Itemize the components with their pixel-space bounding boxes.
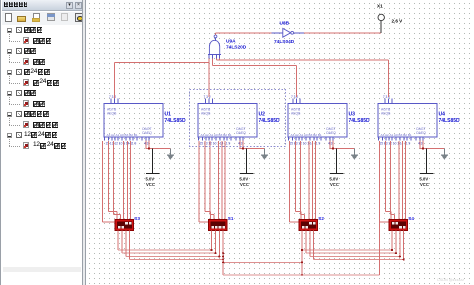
svg-text:S3: S3 bbox=[134, 216, 140, 221]
svg-text:CSDN @zzzzzz: CSDN @zzzzzz bbox=[437, 278, 464, 282]
svg-text:74LS85D: 74LS85D bbox=[259, 118, 281, 124]
svg-text:74LS20D: 74LS20D bbox=[226, 45, 247, 51]
svg-text:A3 A2 A1 A0 B3 B2 B1: A3 A2 A1 A0 B3 B2 B1 bbox=[201, 133, 232, 137]
svg-text:AEQB: AEQB bbox=[381, 112, 391, 116]
svg-text:S4: S4 bbox=[408, 216, 414, 221]
svg-text:74LS85D: 74LS85D bbox=[349, 118, 371, 124]
svg-text:VCC: VCC bbox=[420, 182, 429, 187]
svg-text:A3 A2 A1 A0 B3 B2 B1: A3 A2 A1 A0 B3 B2 B1 bbox=[107, 133, 138, 137]
svg-text:U3: U3 bbox=[349, 111, 356, 117]
svg-text:A3 A2 A1 A0 B3 B2 B1: A3 A2 A1 A0 B3 B2 B1 bbox=[381, 133, 412, 137]
svg-text:OAEQ: OAEQ bbox=[142, 131, 152, 135]
svg-text:U2: U2 bbox=[259, 111, 266, 117]
svg-text:15 13 12 10 1 14 11 9: 15 13 12 10 1 14 11 9 bbox=[106, 141, 137, 145]
svg-text:AEQB: AEQB bbox=[201, 112, 211, 116]
svg-text:U8B: U8B bbox=[280, 21, 290, 27]
svg-text:AEQB: AEQB bbox=[291, 112, 301, 116]
svg-text:OAEQ: OAEQ bbox=[236, 131, 246, 135]
svg-text:7 3 2: 7 3 2 bbox=[109, 95, 116, 99]
svg-text:74LS85D: 74LS85D bbox=[165, 118, 187, 124]
svg-text:A3 A2 A1 A0 B3 B2 B1: A3 A2 A1 A0 B3 B2 B1 bbox=[291, 133, 322, 137]
svg-text:S1: S1 bbox=[228, 216, 234, 221]
svg-text:5.0V: 5.0V bbox=[146, 176, 155, 181]
svg-text:U9A: U9A bbox=[226, 39, 236, 45]
svg-text:VCC: VCC bbox=[146, 182, 155, 187]
svg-text:U1: U1 bbox=[165, 111, 172, 117]
svg-text:X1: X1 bbox=[377, 4, 383, 9]
svg-text:5.0V: 5.0V bbox=[330, 176, 339, 181]
svg-text:5.0V: 5.0V bbox=[420, 176, 429, 181]
svg-text:15 13 12 10 1 14 11 9: 15 13 12 10 1 14 11 9 bbox=[200, 141, 231, 145]
svg-text:S2: S2 bbox=[318, 216, 324, 221]
svg-text:OAEQ: OAEQ bbox=[416, 131, 426, 135]
svg-text:VCC: VCC bbox=[240, 182, 249, 187]
svg-text:74LS85D: 74LS85D bbox=[439, 118, 461, 124]
svg-text:5.0V: 5.0V bbox=[240, 176, 249, 181]
svg-text:7 3 2: 7 3 2 bbox=[383, 95, 390, 99]
svg-text:U4: U4 bbox=[439, 111, 446, 117]
svg-text:VCC: VCC bbox=[330, 182, 339, 187]
svg-text:AEQB: AEQB bbox=[107, 112, 117, 116]
svg-text:OAEQ: OAEQ bbox=[326, 131, 336, 135]
svg-text:74LS04D: 74LS04D bbox=[274, 39, 295, 45]
svg-text:7 3 2: 7 3 2 bbox=[204, 95, 211, 99]
svg-text:2.6 V: 2.6 V bbox=[392, 18, 404, 23]
svg-text:7 3 2: 7 3 2 bbox=[291, 95, 298, 99]
